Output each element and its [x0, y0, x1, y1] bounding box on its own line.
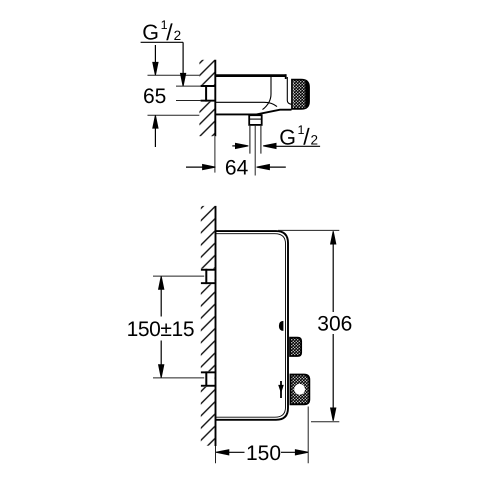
extension line bottom (65 dim lower) — [148, 114, 200, 116]
dimension 64 arrows — [186, 165, 286, 170]
lower wall union square (bottom view) — [200, 371, 216, 387]
temperature marking arrow on body — [279, 381, 283, 398]
dimension 306 line and arrows — [331, 231, 336, 421]
outlet pipe lines — [250, 125, 261, 154]
valve body (top view) outline — [216, 74, 292, 114]
white circle on knob — [294, 384, 305, 395]
body inner cover line — [216, 234, 286, 418]
wall hatch (top view) — [199, 60, 214, 136]
svg-text:65: 65 — [143, 85, 166, 108]
port extension lines (G1/2 leader target) — [176, 86, 201, 100]
150 extension lines — [216, 407, 309, 464]
dimension 65 arrows — [153, 45, 158, 147]
dimension 150±15 line and arrows — [159, 276, 164, 377]
centerline lower union — [153, 377, 204, 379]
svg-text:/: / — [166, 19, 173, 45]
svg-text:306: 306 — [317, 312, 352, 335]
wall face line (top view) — [214, 60, 216, 136]
svg-text:2: 2 — [174, 28, 182, 43]
svg-text:150±15: 150±15 — [127, 318, 195, 341]
306 extension lines — [278, 230, 339, 421]
wall face extension line down to 64 dim — [214, 136, 216, 172]
wall union square (top view) — [199, 85, 216, 102]
svg-text:150: 150 — [246, 442, 281, 465]
small knurled knob (bottom view) — [290, 338, 301, 356]
svg-text:64: 64 — [225, 157, 249, 180]
large knurled knob with circle (bottom view) — [291, 375, 310, 405]
button (black D) on front edge — [279, 321, 284, 331]
wall face line (bottom view) — [215, 206, 217, 446]
svg-text:G: G — [142, 20, 159, 44]
pipe centre extension line — [254, 125, 256, 176]
label G1/2 (pipe) with underline — [276, 123, 320, 150]
centerline upper union — [153, 275, 204, 277]
svg-text:2: 2 — [311, 133, 319, 148]
extension line top (65 dim upper) — [148, 74, 200, 76]
dimension 150 line and arrows — [216, 450, 308, 455]
G1/2 underline + leader arrow — [141, 42, 186, 86]
outlet fitting below body (top view) — [249, 115, 262, 125]
thermostat body outline (bottom view) — [216, 231, 289, 420]
upper wall union square (bottom view) — [200, 269, 216, 285]
label G1/2 (top left) — [142, 18, 181, 45]
knurled knob (top view) — [292, 80, 309, 109]
G1/2 arrows at pipe (pointing at pipe walls) — [232, 143, 276, 148]
wall hatch (bottom view) — [201, 206, 215, 446]
